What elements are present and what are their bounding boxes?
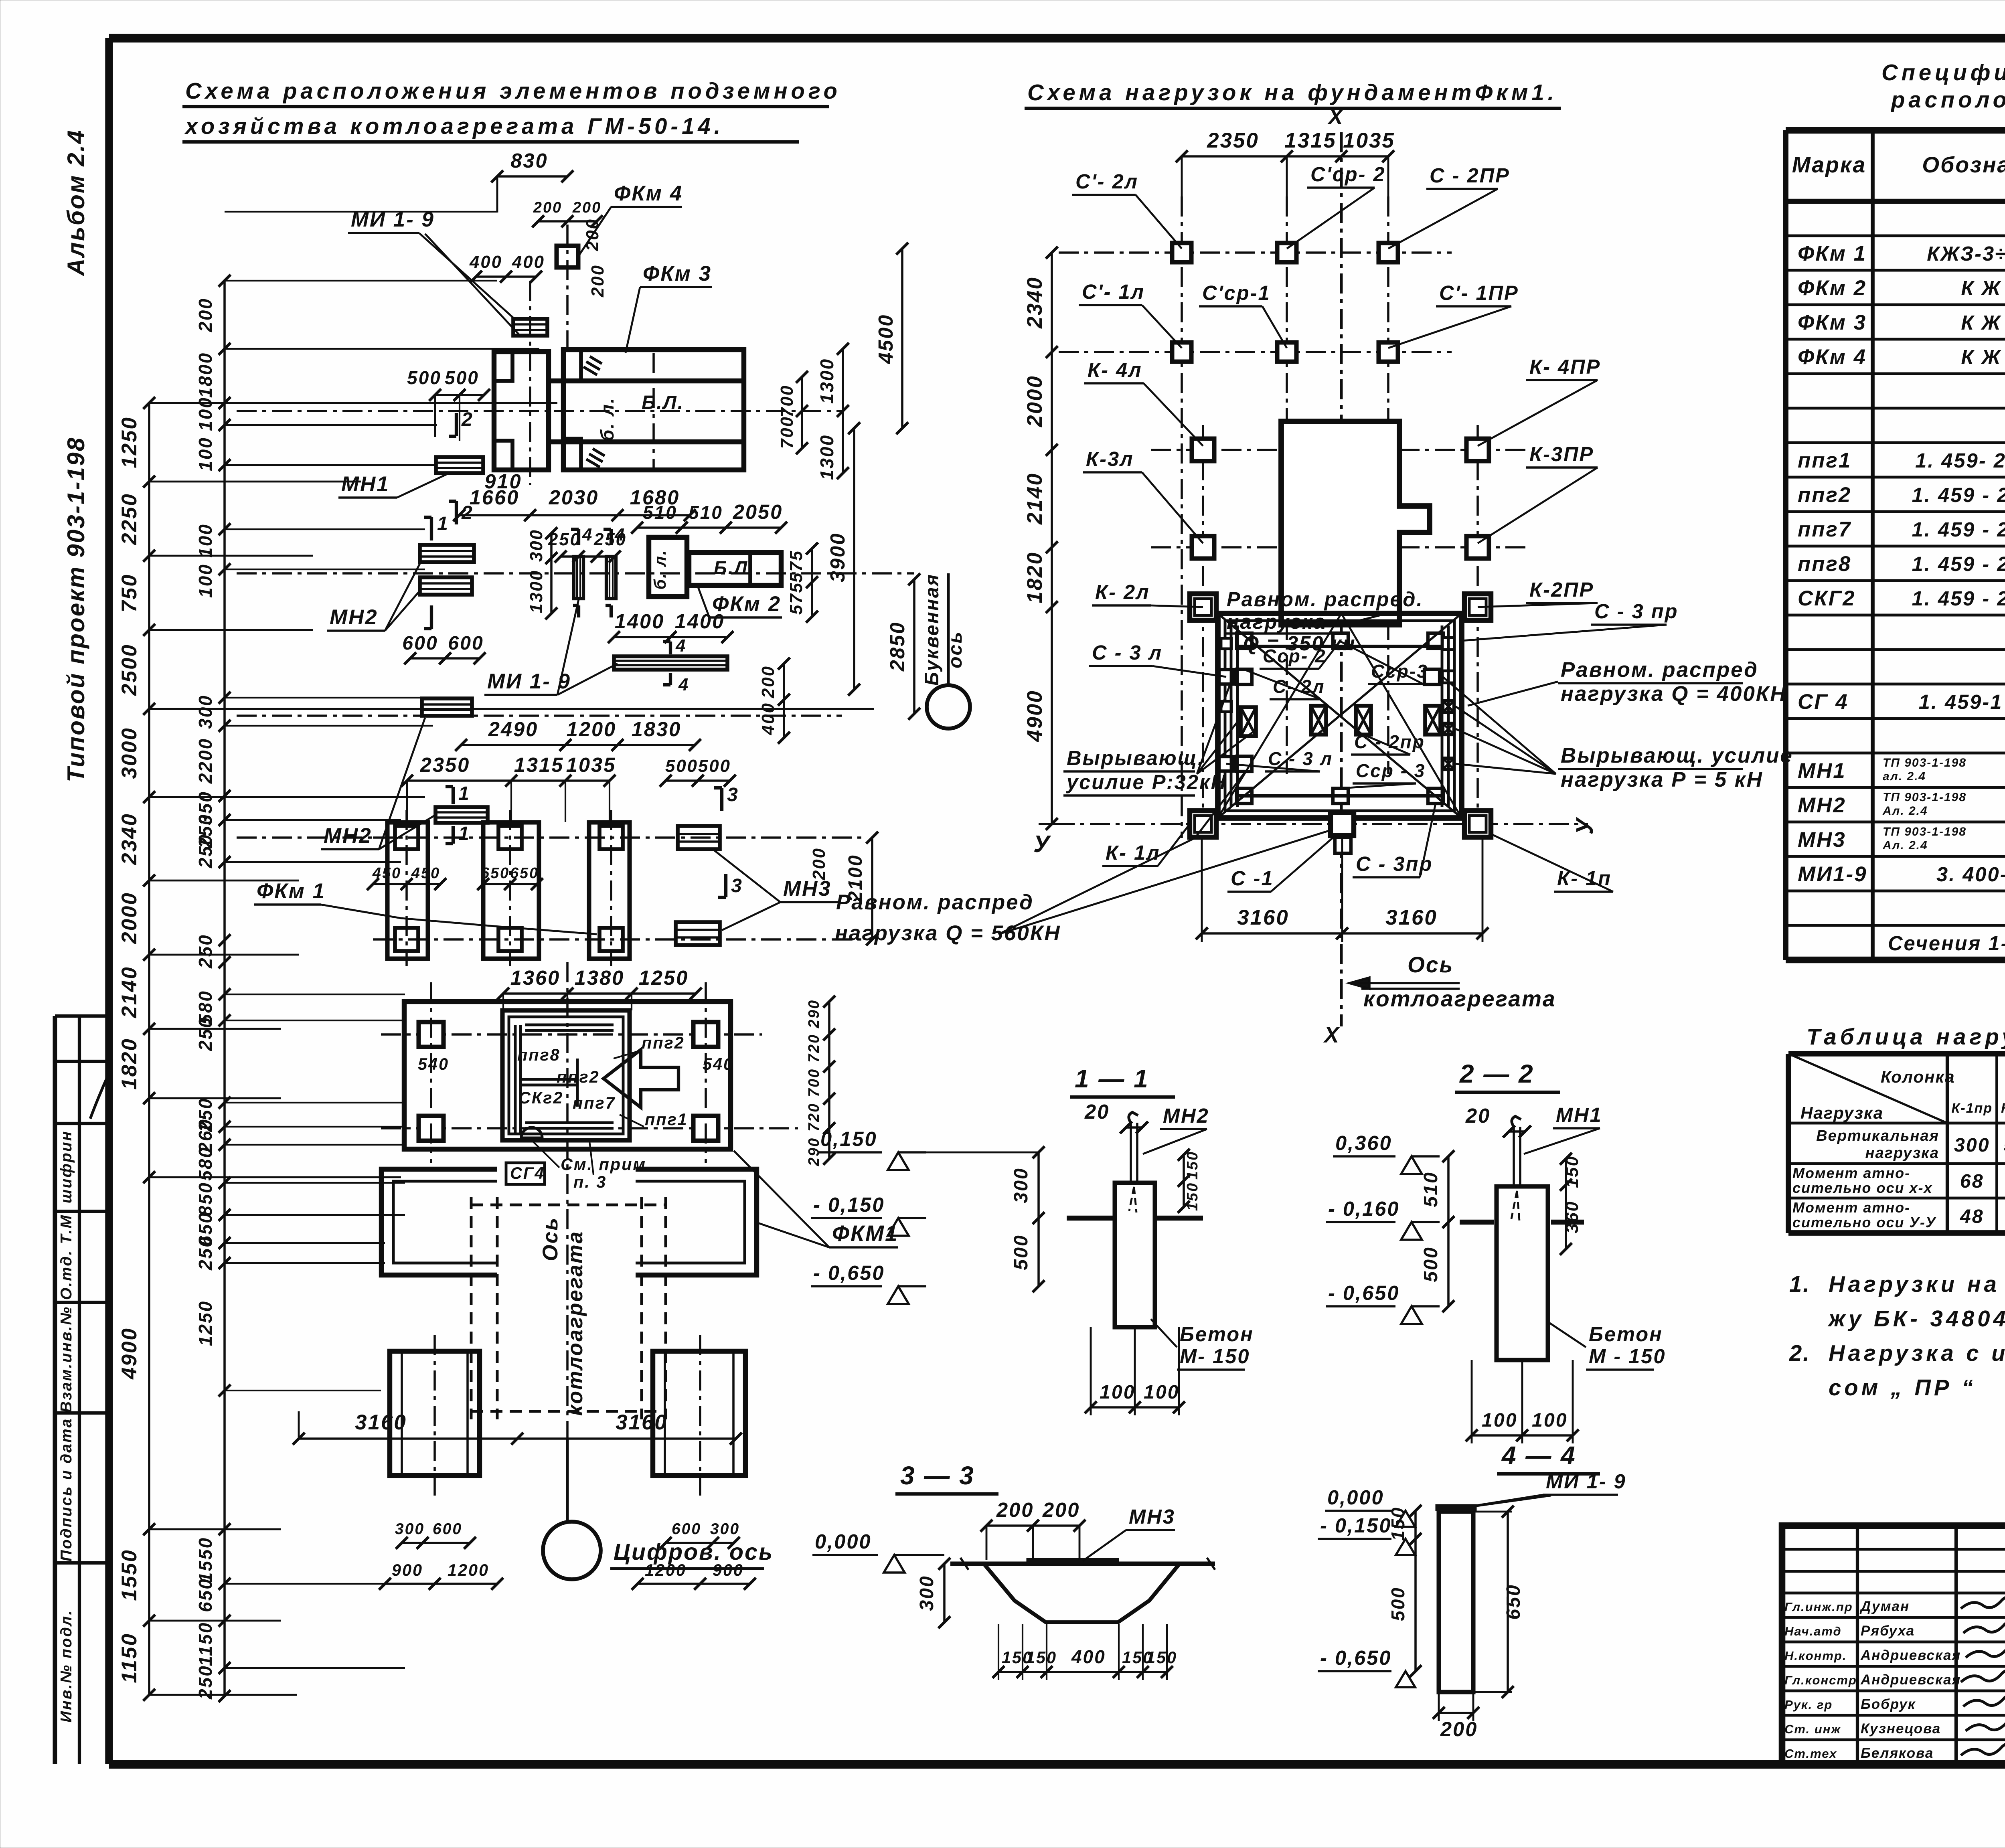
svg-text:100: 100 — [195, 563, 216, 598]
svg-text:Инв.№ подл.: Инв.№ подл. — [58, 1609, 75, 1723]
svg-text:360: 360 — [1562, 1200, 1582, 1233]
svg-text:ТП 903-1-198: ТП 903-1-198 — [1883, 756, 1967, 769]
svg-text:С- 2л: С- 2л — [1273, 676, 1325, 697]
svg-text:1. 459 - 2 Вып. 4: 1. 459 - 2 Вып. 4 — [1912, 518, 2005, 541]
svg-text:X: X — [1323, 1022, 1340, 1047]
svg-text:сительно оси х-х: сительно оси х-х — [1792, 1180, 1933, 1196]
svg-text:X: X — [1327, 104, 1344, 129]
svg-text:720: 720 — [806, 1034, 822, 1063]
svg-text:нагрузка Q = 400КН: нагрузка Q = 400КН — [1561, 682, 1787, 706]
svg-text:500: 500 — [665, 756, 698, 776]
svg-text:усилие Р:32кН: усилие Р:32кН — [1065, 771, 1227, 793]
svg-text:Гл.инж.пр: Гл.инж.пр — [1784, 1600, 1853, 1614]
svg-text:450: 450 — [411, 865, 440, 882]
svg-text:250: 250 — [195, 1236, 216, 1271]
svg-text:нагрузка: нагрузка — [1227, 610, 1326, 633]
svg-text:К- 4л: К- 4л — [1088, 358, 1142, 381]
svg-text:600: 600 — [448, 632, 484, 654]
svg-text:С'ср-1: С'ср-1 — [1202, 281, 1271, 304]
svg-text:20: 20 — [1084, 1100, 1110, 1123]
svg-text:Андриевская: Андриевская — [1860, 1672, 1961, 1688]
svg-text:700: 700 — [806, 1068, 822, 1097]
svg-text:МН2: МН2 — [330, 605, 378, 629]
svg-text:Андриевская: Андриевская — [1860, 1648, 1961, 1663]
svg-text:2030: 2030 — [549, 486, 599, 509]
svg-text:1660: 1660 — [470, 486, 520, 509]
svg-text:2: 2 — [461, 409, 474, 430]
svg-text:850: 850 — [195, 1182, 216, 1216]
svg-text:1035: 1035 — [1343, 129, 1395, 152]
svg-text:700: 700 — [777, 385, 797, 417]
svg-text:3 — 3: 3 — 3 — [900, 1461, 975, 1490]
svg-text:1. 459-1 Вып. 3: 1. 459-1 Вып. 3 — [1919, 690, 2005, 713]
svg-text:510: 510 — [1420, 1171, 1442, 1207]
svg-text:150: 150 — [1387, 1506, 1408, 1541]
svg-text:ппг1: ппг1 — [1798, 449, 1851, 472]
svg-text:Момент атно-: Момент атно- — [1792, 1165, 1910, 1181]
svg-text:Бетон: Бетон — [1589, 1323, 1663, 1346]
svg-text:Подпись и дата: Подпись и дата — [58, 1418, 75, 1562]
svg-text:68: 68 — [1960, 1170, 1984, 1192]
svg-text:МН1: МН1 — [1556, 1103, 1602, 1126]
svg-text:б. л.: б. л. — [651, 549, 669, 590]
svg-text:шифрин: шифрин — [58, 1130, 75, 1204]
svg-text:3. 400- 6 /76: 3. 400- 6 /76 — [1936, 863, 2005, 886]
svg-text:1830: 1830 — [632, 718, 682, 741]
svg-text:1250: 1250 — [117, 416, 141, 468]
svg-text:4: 4 — [678, 675, 689, 694]
svg-text:Н.контр.: Н.контр. — [1784, 1649, 1847, 1663]
svg-text:б. л.: б. л. — [597, 397, 618, 441]
svg-text:Рябуха: Рябуха — [1861, 1623, 1915, 1639]
svg-text:Схема расположения элементов: Схема расположения элементов подземного — [185, 78, 841, 103]
svg-text:4 — 4: 4 — 4 — [1501, 1441, 1576, 1470]
svg-text:2490: 2490 — [488, 718, 539, 741]
svg-text:500: 500 — [698, 756, 731, 776]
svg-text:Бобрук: Бобрук — [1861, 1696, 1916, 1712]
svg-text:Марка: Марка — [1792, 152, 1866, 177]
svg-text:К-2пр: К-2пр — [2001, 1101, 2005, 1116]
svg-text:600: 600 — [433, 1520, 462, 1538]
svg-text:1. 459- 2 Вып. 4: 1. 459- 2 Вып. 4 — [1915, 449, 2005, 472]
svg-text:С - 3 л: С - 3 л — [1268, 748, 1333, 769]
svg-text:Равном. распред: Равном. распред — [1561, 658, 1758, 682]
svg-text:300: 300 — [710, 1520, 740, 1538]
svg-text:300: 300 — [195, 694, 216, 729]
svg-text:Типовой проект 903-1-198: Типовой проект 903-1-198 — [62, 437, 89, 782]
svg-text:Взам.инв.№: Взам.инв.№ — [58, 1306, 75, 1413]
svg-text:1360: 1360 — [510, 966, 561, 989]
svg-text:2000: 2000 — [1023, 375, 1047, 427]
svg-text:МИ1-9: МИ1-9 — [1798, 862, 1867, 886]
svg-text:М - 150: М - 150 — [1589, 1345, 1666, 1368]
svg-text:1820: 1820 — [117, 1038, 141, 1090]
svg-text:СГ4: СГ4 — [510, 1164, 545, 1182]
svg-text:3160: 3160 — [355, 1411, 407, 1434]
svg-text:700: 700 — [777, 416, 797, 449]
svg-text:300: 300 — [527, 529, 546, 562]
svg-text:1550: 1550 — [195, 1537, 216, 1583]
svg-text:2140: 2140 — [1023, 472, 1047, 525]
svg-text:К Ж 3-6: К Ж 3-6 — [1961, 311, 2005, 334]
svg-text:100: 100 — [195, 437, 216, 471]
svg-text:2200: 2200 — [195, 738, 216, 784]
svg-text:830: 830 — [510, 149, 548, 172]
svg-text:ФКм 3: ФКм 3 — [1798, 311, 1867, 334]
svg-text:3160: 3160 — [1237, 906, 1289, 929]
svg-text:300: 300 — [916, 1575, 938, 1611]
svg-text:СКГ2: СКГ2 — [1798, 587, 1856, 610]
svg-text:100: 100 — [1532, 1409, 1568, 1431]
svg-text:1035: 1035 — [566, 753, 616, 776]
svg-text:Нагрузки на фундамент фКм 1: Нагрузки на фундамент фКм 1 приняты по ч… — [1829, 1271, 2005, 1297]
svg-text:ппг1: ппг1 — [645, 1110, 688, 1129]
svg-text:К- 1л: К- 1л — [1106, 841, 1160, 864]
svg-text:Спецификация элементов к с: Спецификация элементов к схеме — [1881, 60, 2005, 85]
svg-text:400: 400 — [1071, 1646, 1106, 1667]
svg-text:- 0,150: - 0,150 — [813, 1193, 885, 1216]
svg-text:Б.Л.: Б.Л. — [642, 392, 684, 413]
svg-text:1. 459 - 2 Вып. 4: 1. 459 - 2 Вып. 4 — [1912, 587, 2005, 610]
svg-text:МН3: МН3 — [1798, 828, 1846, 852]
svg-text:С'- 1л: С'- 1л — [1082, 280, 1145, 303]
svg-text:150: 150 — [1026, 1648, 1057, 1667]
svg-text:150: 150 — [1562, 1155, 1582, 1188]
svg-text:Нагрузка с индексом „ Л “: Нагрузка с индексом „ Л “ равна нагрузке… — [1829, 1340, 2005, 1366]
svg-text:МН2: МН2 — [1798, 793, 1846, 817]
svg-text:500: 500 — [1387, 1587, 1408, 1621]
svg-text:200: 200 — [758, 665, 778, 698]
svg-text:Вырывающ. усилие: Вырывающ. усилие — [1561, 744, 1793, 767]
svg-text:- 0,650: - 0,650 — [813, 1261, 885, 1284]
svg-text:Альбом 2.4: Альбом 2.4 — [62, 129, 89, 277]
svg-text:Ось: Ось — [539, 1217, 562, 1261]
svg-text:2500: 2500 — [117, 644, 141, 696]
svg-text:- 0,150: - 0,150 — [1320, 1514, 1392, 1537]
svg-text:200: 200 — [996, 1498, 1034, 1521]
svg-text:К- 2л: К- 2л — [1095, 581, 1150, 603]
svg-text:Цифров. ось: Цифров. ось — [614, 1539, 774, 1565]
svg-text:Ал. 2.4: Ал. 2.4 — [1882, 839, 1928, 852]
svg-text:котлоагрегата: котлоагрегата — [563, 1231, 587, 1416]
svg-text:С - 3 л: С - 3 л — [1092, 641, 1162, 664]
svg-text:200: 200 — [588, 264, 608, 298]
svg-text:1300: 1300 — [816, 434, 837, 480]
svg-text:СКг2: СКг2 — [518, 1089, 563, 1107]
svg-text:ФКм 2: ФКм 2 — [1798, 276, 1867, 300]
svg-text:1820: 1820 — [1023, 551, 1047, 603]
svg-text:300: 300 — [1010, 1167, 1032, 1203]
svg-text:МН1: МН1 — [341, 472, 390, 496]
svg-text:150: 150 — [1184, 1182, 1201, 1211]
svg-text:ппг2: ппг2 — [557, 1068, 600, 1086]
svg-text:720: 720 — [806, 1103, 822, 1131]
svg-text:С -1: С -1 — [1231, 867, 1274, 890]
svg-text:4: 4 — [582, 525, 593, 544]
svg-text:МИ 1- 9: МИ 1- 9 — [351, 208, 435, 231]
svg-text:Равном. распред.: Равном. распред. — [1227, 588, 1424, 611]
svg-text:К-1пр: К-1пр — [1951, 1101, 1993, 1116]
svg-text:Рук. гр: Рук. гр — [1784, 1698, 1833, 1712]
svg-text:С'- 1ПР: С'- 1ПР — [1439, 281, 1519, 304]
svg-text:ТП 903-1-198: ТП 903-1-198 — [1883, 791, 1967, 804]
svg-text:котлоагрегата: котлоагрегата — [1363, 986, 1556, 1011]
svg-text:1300: 1300 — [527, 569, 546, 613]
svg-text:900: 900 — [392, 1561, 423, 1579]
svg-text:0,000: 0,000 — [815, 1530, 872, 1553]
svg-text:К- 4ПР: К- 4ПР — [1529, 355, 1601, 378]
svg-text:1: 1 — [458, 823, 470, 844]
svg-text:2000: 2000 — [117, 892, 141, 944]
svg-text:Сечения 1-1, 2-2, 4-4: Сечения 1-1, 2-2, 4-4 — [1888, 932, 2005, 955]
svg-text:290: 290 — [806, 1137, 822, 1166]
svg-text:500: 500 — [1010, 1234, 1032, 1270]
svg-text:1400: 1400 — [615, 610, 665, 633]
svg-text:МН1: МН1 — [1798, 759, 1846, 783]
svg-text:575: 575 — [786, 582, 806, 615]
svg-text:М- 150: М- 150 — [1180, 1345, 1250, 1368]
svg-text:ФКм 4: ФКм 4 — [614, 182, 683, 205]
svg-text:1. 459 - 2 Вып. 4: 1. 459 - 2 Вып. 4 — [1912, 553, 2005, 575]
svg-text:200: 200 — [572, 199, 601, 216]
svg-text:3: 3 — [731, 875, 743, 897]
svg-text:У: У — [1033, 830, 1051, 857]
svg-text:500: 500 — [407, 367, 442, 388]
svg-text:150: 150 — [1146, 1648, 1177, 1667]
svg-text:Ст. инж: Ст. инж — [1784, 1722, 1841, 1736]
svg-text:1200: 1200 — [567, 718, 617, 741]
svg-text:2140: 2140 — [117, 966, 141, 1018]
svg-text:600: 600 — [672, 1520, 701, 1538]
svg-text:ФКм 1: ФКм 1 — [257, 879, 326, 903]
svg-text:Q = 350 кн: Q = 350 кн — [1243, 632, 1356, 655]
svg-text:200: 200 — [583, 218, 602, 251]
svg-text:ппг2: ппг2 — [1798, 483, 1851, 507]
svg-text:200: 200 — [1440, 1718, 1478, 1741]
svg-text:100: 100 — [195, 523, 216, 558]
svg-text:К-2ПР: К-2ПР — [1529, 578, 1594, 601]
svg-text:ФКМ1: ФКМ1 — [832, 1221, 899, 1246]
svg-text:2250: 2250 — [117, 493, 141, 545]
svg-text:500: 500 — [1420, 1246, 1442, 1282]
svg-text:К-3ПР: К-3ПР — [1529, 443, 1594, 466]
svg-text:Сср - 3: Сср - 3 — [1356, 760, 1426, 781]
svg-text:100: 100 — [1100, 1381, 1136, 1403]
svg-text:ал. 2.4: ал. 2.4 — [1883, 770, 1926, 783]
svg-text:1550: 1550 — [117, 1549, 141, 1601]
svg-text:Б.Л.: Б.Л. — [714, 557, 755, 578]
svg-text:1380: 1380 — [575, 966, 625, 989]
svg-text:ФКм 4: ФКм 4 — [1798, 345, 1867, 369]
svg-text:хозяйства котлоагрегата: хозяйства котлоагрегата ГМ-50-14. — [184, 113, 724, 139]
svg-text:200: 200 — [195, 298, 216, 332]
svg-text:1800: 1800 — [195, 352, 216, 398]
svg-text:3900: 3900 — [826, 532, 849, 583]
svg-text:Ал. 2.4: Ал. 2.4 — [1882, 804, 1928, 818]
svg-text:1400: 1400 — [675, 610, 725, 633]
svg-text:1315: 1315 — [1284, 129, 1337, 152]
svg-text:400: 400 — [758, 702, 778, 735]
svg-text:2350: 2350 — [420, 753, 470, 776]
svg-text:ппг7: ппг7 — [573, 1094, 616, 1112]
svg-text:- 0,650: - 0,650 — [1320, 1646, 1392, 1669]
svg-text:Буквенная: Буквенная — [921, 573, 943, 686]
svg-text:0,360: 0,360 — [1335, 1131, 1392, 1154]
svg-text:1.: 1. — [1789, 1271, 1811, 1297]
svg-text:Вырывающ,: Вырывающ, — [1067, 747, 1205, 769]
svg-text:4: 4 — [675, 636, 687, 656]
svg-text:250: 250 — [195, 834, 216, 868]
svg-text:1150: 1150 — [117, 1633, 141, 1683]
svg-text:п. 3: п. 3 — [573, 1173, 607, 1191]
svg-text:ппг8: ппг8 — [517, 1046, 561, 1064]
svg-text:1200: 1200 — [448, 1561, 489, 1579]
svg-text:Бетон: Бетон — [1180, 1323, 1254, 1346]
svg-text:Схема нагрузок на фундамент: Схема нагрузок на фундаментФкм1. — [1027, 80, 1557, 105]
svg-text:48: 48 — [1960, 1206, 1984, 1227]
svg-text:МН2: МН2 — [324, 824, 372, 848]
svg-text:нагрузка: нагрузка — [1865, 1145, 1939, 1162]
svg-text:600: 600 — [402, 632, 438, 654]
svg-text:1 — 1: 1 — 1 — [1075, 1064, 1149, 1093]
svg-text:Вертикальная: Вертикальная — [1816, 1127, 1939, 1144]
svg-text:расположения на данном: расположения на данном листе — [1890, 87, 2005, 112]
svg-text:ФКм 1: ФКм 1 — [1798, 242, 1867, 265]
svg-text:100: 100 — [195, 397, 216, 431]
svg-text:Думан: Думан — [1859, 1599, 1910, 1614]
svg-text:290: 290 — [806, 999, 822, 1028]
svg-text:КЖЗ-3÷КЖЗ-5: КЖЗ-3÷КЖЗ-5 — [1927, 242, 2005, 265]
svg-text:3160: 3160 — [1385, 906, 1438, 929]
svg-text:нагрузка Р = 5 кН: нагрузка Р = 5 кН — [1561, 768, 1763, 791]
svg-text:Момент атно-: Момент атно- — [1792, 1199, 1910, 1216]
svg-text:650: 650 — [195, 1578, 216, 1612]
svg-text:500: 500 — [445, 367, 479, 388]
svg-text:МИ 1- 9: МИ 1- 9 — [1546, 1470, 1626, 1493]
svg-text:1300: 1300 — [816, 358, 837, 404]
svg-text:750: 750 — [117, 573, 141, 612]
svg-text:0,000: 0,000 — [1327, 1486, 1384, 1509]
svg-text:Колонка: Колонка — [1881, 1067, 1955, 1086]
svg-text:100: 100 — [1482, 1409, 1518, 1431]
svg-text:С - 2ПР: С - 2ПР — [1430, 164, 1510, 187]
svg-text:С'ср- 2: С'ср- 2 — [1310, 163, 1386, 186]
svg-text:400: 400 — [469, 252, 502, 272]
svg-text:650: 650 — [481, 865, 510, 882]
svg-text:1. 459 - 2 Вып. 4: 1. 459 - 2 Вып. 4 — [1912, 484, 2005, 506]
svg-text:200: 200 — [1042, 1498, 1080, 1521]
svg-text:ТП 903-1-198: ТП 903-1-198 — [1883, 825, 1967, 838]
svg-text:К Ж 3-6: К Ж 3-6 — [1961, 277, 2005, 300]
svg-text:С - 3 пр: С - 3 пр — [1594, 600, 1679, 623]
svg-text:МН2: МН2 — [1163, 1104, 1209, 1127]
svg-text:2340: 2340 — [1023, 276, 1047, 329]
svg-text:1: 1 — [458, 783, 470, 804]
svg-text:1315: 1315 — [514, 753, 564, 776]
svg-text:ппг7: ппг7 — [1798, 518, 1851, 541]
svg-text:3000: 3000 — [117, 727, 141, 779]
svg-text:Таблица нагрузок на фунд: Таблица нагрузок на фундамент фКм 1 ( КН… — [1807, 1024, 2005, 1049]
svg-text:540: 540 — [418, 1055, 449, 1073]
svg-text:100: 100 — [1144, 1381, 1180, 1403]
svg-text:200: 200 — [533, 199, 562, 216]
svg-text:540: 540 — [703, 1055, 734, 1073]
svg-text:2850: 2850 — [886, 621, 909, 672]
svg-text:сительно оси У-У: сительно оси У-У — [1792, 1214, 1936, 1231]
svg-text:510: 510 — [689, 502, 723, 523]
svg-text:2050: 2050 — [733, 500, 783, 523]
svg-text:У: У — [1571, 817, 1598, 835]
svg-text:200: 200 — [809, 847, 829, 880]
svg-text:СГ 4: СГ 4 — [1798, 690, 1849, 714]
svg-text:300: 300 — [395, 1520, 425, 1538]
svg-text:Обозначение: Обозначение — [1922, 152, 2005, 177]
svg-text:К Ж 3-6: К Ж 3-6 — [1961, 346, 2005, 368]
svg-text:4500: 4500 — [874, 314, 897, 364]
svg-text:Ось: Ось — [1408, 952, 1454, 977]
svg-text:3160: 3160 — [616, 1411, 668, 1434]
svg-text:2350: 2350 — [1207, 129, 1259, 152]
svg-text:Кузнецова: Кузнецова — [1861, 1721, 1941, 1737]
svg-text:1150: 1150 — [195, 1622, 216, 1666]
svg-text:О.тд. Т.М: О.тд. Т.М — [58, 1214, 75, 1300]
svg-text:400: 400 — [512, 252, 545, 272]
svg-text:3: 3 — [727, 784, 739, 806]
svg-text:2100: 2100 — [845, 854, 866, 902]
svg-text:500: 500 — [2004, 1134, 2005, 1156]
svg-text:2.: 2. — [1789, 1340, 1811, 1366]
svg-text:510: 510 — [643, 502, 677, 523]
svg-text:150: 150 — [1184, 1151, 1201, 1180]
svg-text:- 0,160: - 0,160 — [1328, 1197, 1400, 1220]
svg-text:ппг2: ппг2 — [642, 1034, 685, 1052]
svg-text:жу БК- 34804 Белгородского: жу БК- 34804 Белгородского котельного за… — [1827, 1306, 2005, 1331]
svg-text:580: 580 — [195, 1146, 216, 1181]
svg-text:сом „ ПР “: сом „ ПР “ — [1829, 1375, 1976, 1400]
svg-text:650: 650 — [1503, 1584, 1524, 1620]
svg-text:ппг8: ппг8 — [1798, 552, 1851, 576]
svg-text:Нач.атд: Нач.атд — [1784, 1624, 1842, 1638]
svg-text:Нагрузка: Нагрузка — [1800, 1103, 1883, 1122]
svg-text:4: 4 — [614, 525, 626, 544]
svg-text:2 — 2: 2 — 2 — [1459, 1059, 1534, 1088]
svg-text:1250: 1250 — [639, 966, 689, 989]
svg-text:Ст.тех: Ст.тех — [1784, 1747, 1837, 1761]
svg-text:250: 250 — [195, 1016, 216, 1051]
svg-text:МН3: МН3 — [1129, 1505, 1175, 1528]
svg-text:20: 20 — [1465, 1104, 1491, 1127]
svg-text:С'- 2л: С'- 2л — [1075, 170, 1138, 193]
svg-text:2340: 2340 — [117, 813, 141, 865]
svg-text:ФКм 3: ФКм 3 — [643, 262, 712, 285]
svg-text:4900: 4900 — [1023, 690, 1047, 742]
svg-text:4900: 4900 — [117, 1327, 141, 1380]
svg-text:250: 250 — [195, 934, 216, 969]
svg-text:300: 300 — [1954, 1134, 1990, 1156]
svg-text:ось: ось — [944, 631, 966, 668]
svg-text:1250: 1250 — [195, 1300, 216, 1346]
svg-text:Белякова: Белякова — [1861, 1745, 1934, 1761]
svg-text:1: 1 — [437, 513, 449, 534]
svg-text:МН3: МН3 — [783, 877, 832, 901]
svg-text:- 0,650: - 0,650 — [1328, 1281, 1400, 1304]
svg-text:К-3л: К-3л — [1086, 447, 1134, 470]
svg-text:575: 575 — [786, 550, 806, 583]
svg-text:Гл.констр: Гл.констр — [1784, 1673, 1857, 1687]
